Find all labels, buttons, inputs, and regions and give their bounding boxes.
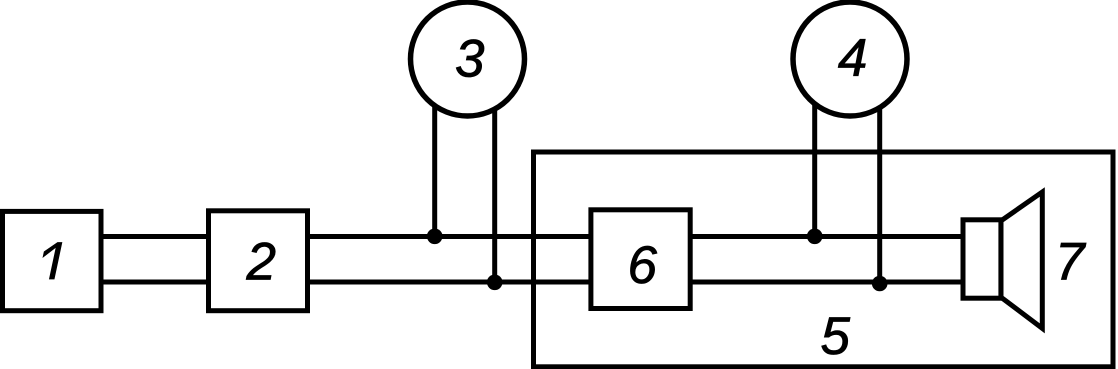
speaker 7 driver	[963, 220, 1001, 298]
svg-text:4: 4	[838, 29, 867, 88]
enclosure box 5	[534, 152, 1114, 367]
junction dot top-left	[427, 229, 443, 245]
wire vertical from circle 4 to bottom bus	[877, 80, 882, 283]
svg-text:3: 3	[455, 29, 485, 88]
wire top bus	[100, 234, 963, 239]
block 2	[209, 211, 308, 311]
speaker 7 horn	[1001, 192, 1042, 328]
junction dot bottom-left	[487, 275, 503, 291]
svg-text:2: 2	[246, 233, 276, 292]
wire vertical from circle 4 to top bus	[812, 80, 817, 237]
circle 4	[793, 2, 907, 116]
junction dot bottom-right	[872, 276, 888, 292]
wire vertical from circle 3 to top bus	[432, 80, 437, 237]
label 1	[38, 243, 61, 279]
wire bottom bus	[100, 280, 963, 285]
svg-text:7: 7	[1055, 233, 1087, 292]
svg-text:6: 6	[628, 236, 658, 295]
circle 3	[411, 2, 525, 116]
svg-text:5: 5	[821, 307, 851, 366]
wire vertical from circle 3 to bottom bus	[492, 80, 497, 282]
junction dot top-right	[807, 229, 823, 245]
block 1	[3, 211, 102, 310]
block 6	[591, 210, 690, 309]
